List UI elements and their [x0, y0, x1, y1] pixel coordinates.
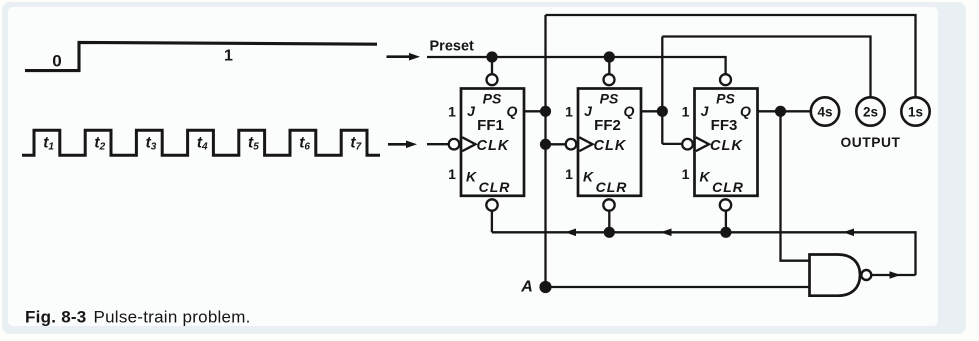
wire clock to FF1 CLK: [427, 143, 449, 145]
svg-text:K: K: [699, 168, 710, 184]
svg-text:CLK: CLK: [594, 138, 627, 154]
svg-text:1: 1: [224, 48, 233, 65]
clock pulse train t1-t7: [22, 130, 380, 155]
NAND gate U1: [810, 255, 861, 296]
svg-text:K: K: [466, 168, 477, 184]
FF1 CLR bubble: [486, 199, 497, 210]
svg-text:CLK: CLK: [710, 138, 743, 154]
wire FF2 Q to FF3 CLK: [662, 143, 681, 145]
svg-text:1: 1: [448, 166, 456, 182]
svg-text:CLK: CLK: [477, 138, 510, 154]
output circle 2s: [856, 97, 884, 125]
FF1 CLK bubble: [449, 139, 460, 150]
flip-flop FF1: [461, 89, 524, 196]
CLR bus arrowhead left 2: [661, 229, 672, 237]
wire FF1 CLR stub: [491, 211, 493, 232]
vertical wire FF1 Q / node A bus: [544, 15, 546, 287]
wire 2s line to output 2s: [662, 37, 870, 98]
wire FF3 Q down to NAND input: [781, 111, 810, 260]
svg-text:J: J: [701, 103, 710, 119]
output circle 4s: [811, 97, 839, 125]
FF2 PS bubble: [604, 74, 615, 85]
wire FF1 Q to FF2 CLK: [546, 143, 566, 145]
preset wire to PS inputs: [427, 57, 726, 74]
svg-text:A: A: [520, 278, 533, 295]
NAND output wire: [872, 274, 916, 276]
wire FF1 Q output: [524, 110, 546, 112]
svg-text:1: 1: [682, 166, 690, 182]
junction CLR bus/FF3: [720, 227, 731, 238]
vertical wire FF2 Q riser: [661, 37, 663, 144]
FF3 clock edge triangle: [696, 137, 709, 151]
FF3 PS bubble: [720, 74, 731, 85]
wire preset to FF1 PS: [491, 57, 493, 74]
svg-text:4s: 4s: [817, 105, 832, 120]
junction preset/FF2 PS: [604, 51, 615, 62]
svg-text:1: 1: [682, 104, 690, 120]
node A junction: [539, 281, 551, 293]
flip-flop FF2: [578, 89, 641, 196]
wire FF3 CLR stub: [725, 211, 727, 232]
wire preset to FF2 PS: [608, 57, 610, 74]
NAND output bubble: [861, 270, 871, 280]
preset input arrowhead: [409, 53, 420, 61]
FF1 clock edge triangle: [462, 137, 475, 151]
wire 1s feedback line to output 1s: [546, 15, 916, 97]
CLR bus arrowhead left 3: [843, 229, 854, 237]
svg-text:PS: PS: [716, 91, 735, 107]
svg-text:Q: Q: [507, 103, 518, 119]
junction FF3 Q: [775, 106, 786, 117]
wire FF2 CLR stub: [608, 211, 610, 232]
svg-text:FF3: FF3: [711, 117, 738, 134]
CLR bus arrowhead left 1: [565, 229, 576, 237]
junction preset/FF1 PS: [486, 51, 497, 62]
wire node A to NAND input: [546, 286, 810, 288]
svg-text:K: K: [583, 168, 594, 184]
junction FF1 Q to CLK2: [540, 139, 551, 150]
FF2 clock edge triangle: [579, 137, 592, 151]
svg-text:FF2: FF2: [594, 117, 621, 134]
svg-text:CLR: CLR: [479, 179, 511, 195]
preset input arrow shaft: [387, 55, 411, 58]
svg-text:1: 1: [448, 104, 456, 120]
clear bus wire from NAND output: [492, 232, 916, 275]
output circle 1s: [901, 97, 929, 125]
svg-text:1s: 1s: [908, 105, 923, 120]
clock input arrowhead: [406, 141, 417, 149]
svg-text:2s: 2s: [863, 105, 878, 120]
FF3 CLR bubble: [720, 199, 731, 210]
svg-text:J: J: [584, 103, 593, 119]
svg-text:Q: Q: [624, 103, 635, 119]
FF1 PS bubble: [487, 74, 498, 85]
svg-text:Fig. 8-3Pulse-train problem.: Fig. 8-3Pulse-train problem.: [25, 308, 251, 327]
wire FF3 Q to output 4s: [758, 110, 811, 112]
clock input arrow shaft: [388, 143, 407, 146]
junction FF2 Q: [657, 106, 668, 117]
FF2 CLR bubble: [603, 199, 614, 210]
svg-text:OUTPUT: OUTPUT: [840, 135, 900, 150]
svg-text:Preset: Preset: [430, 39, 475, 55]
FF2 CLK bubble: [566, 139, 577, 150]
svg-text:FF1: FF1: [477, 117, 504, 134]
wire FF2 Q output: [641, 110, 662, 112]
junction FF1 Q: [540, 106, 551, 117]
FF3 CLK bubble: [682, 139, 693, 150]
NAND output arrowhead: [890, 271, 901, 279]
flip-flop FF3: [695, 89, 758, 196]
junction CLR bus/FF2: [604, 227, 615, 238]
svg-text:0: 0: [52, 52, 61, 71]
svg-text:1: 1: [565, 166, 573, 182]
svg-text:PS: PS: [483, 91, 502, 107]
step waveform 0-to-1: [25, 42, 377, 70]
svg-text:Q: Q: [740, 103, 751, 119]
svg-text:CLR: CLR: [596, 179, 628, 195]
svg-text:1: 1: [565, 104, 573, 120]
svg-text:CLR: CLR: [712, 179, 744, 195]
svg-text:J: J: [467, 103, 476, 119]
svg-text:PS: PS: [600, 91, 619, 107]
